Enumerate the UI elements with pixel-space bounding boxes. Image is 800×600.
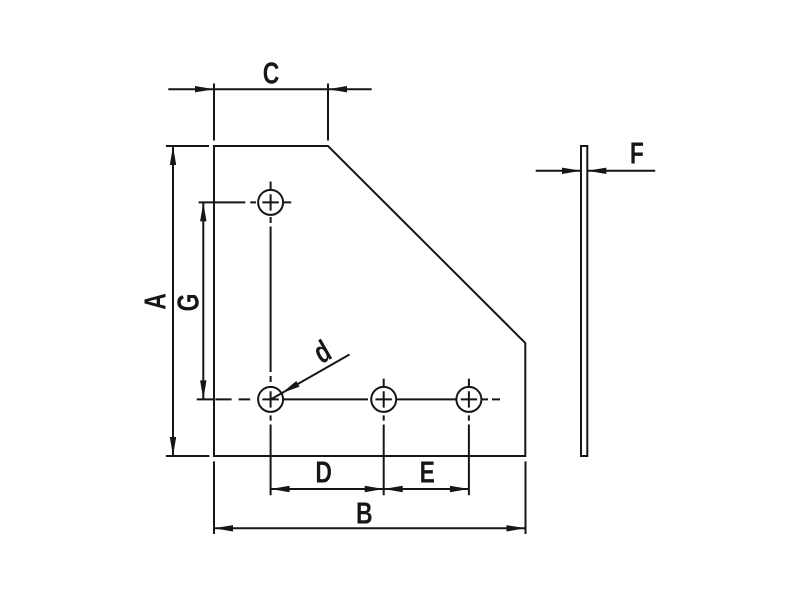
dimension B line: [214, 527, 526, 529]
leader line d: [272, 355, 350, 400]
dimension D E extension implicit via centerlines; dimension D line: [271, 488, 384, 490]
arrow G bottom: [200, 380, 206, 399]
centerline horizontal through H1: [199, 201, 292, 203]
arrow G top: [200, 202, 206, 221]
svg-text:d: d: [307, 333, 337, 371]
dimension B extension lines: [214, 461, 526, 534]
dimension C extension lines: [214, 84, 328, 141]
hole H4 circle: [456, 387, 481, 412]
arrow C left: [195, 86, 214, 92]
svg-text:C: C: [263, 55, 280, 90]
dimension G line: [202, 202, 204, 399]
dimension G extension line bottom: [197, 398, 214, 400]
dimension C line: [168, 88, 371, 90]
svg-text:A: A: [137, 293, 172, 310]
arrow B right: [507, 525, 526, 531]
arrow D right: [365, 486, 384, 492]
arrow E right: [450, 486, 469, 492]
dimension A line: [172, 146, 174, 456]
svg-text:G: G: [170, 294, 205, 312]
centerline vertical through H4: [468, 379, 470, 496]
hole H3 circle: [371, 387, 396, 412]
arrow D left: [271, 486, 290, 492]
svg-text:B: B: [356, 495, 373, 530]
hole H2 circle: [258, 387, 283, 412]
arrow B left: [214, 525, 233, 531]
centerline horizontal through H2 H3 H4: [215, 398, 500, 400]
svg-text:F: F: [630, 135, 644, 170]
svg-text:E: E: [420, 454, 435, 489]
arrow d leader: [281, 381, 299, 393]
arrow A top: [170, 146, 176, 165]
arrow E left: [384, 486, 403, 492]
arrow C right: [328, 86, 347, 92]
centerline vertical through H3: [383, 379, 385, 496]
arrow A bottom: [170, 437, 176, 456]
svg-text:D: D: [315, 454, 332, 489]
dimension F line: [536, 170, 656, 172]
arrow F right: [587, 168, 606, 174]
centerline vertical through H1 H2: [270, 182, 272, 496]
dimension E line: [384, 488, 469, 490]
dimension A extension lines: [166, 146, 210, 456]
arrow F left: [562, 168, 581, 174]
hole H1 circle: [258, 190, 283, 215]
side view plate: [581, 146, 587, 456]
plate outline (front view): [214, 146, 525, 456]
